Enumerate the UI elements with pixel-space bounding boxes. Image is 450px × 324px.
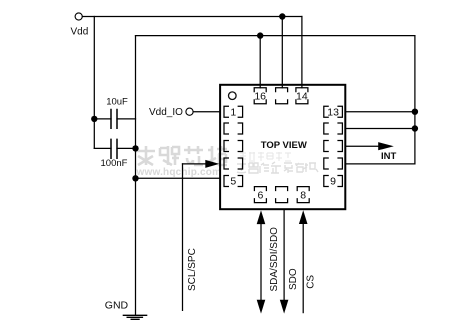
pin 2 xyxy=(224,123,243,134)
terminal Vdd xyxy=(75,13,82,20)
capacitor C1 10uF xyxy=(94,118,135,120)
pin 1 index circle xyxy=(229,92,237,100)
svg-text:10uF: 10uF xyxy=(106,96,128,107)
wire drop to pin 15 xyxy=(281,17,283,88)
pin 15 xyxy=(276,88,288,104)
svg-text:5: 5 xyxy=(230,176,236,188)
svg-text:SDA/SDI/SDO: SDA/SDI/SDO xyxy=(269,227,280,292)
svg-text:100nF: 100nF xyxy=(101,158,128,169)
junction dot pin5 branch xyxy=(132,175,138,181)
pin 4 xyxy=(224,158,243,169)
wire main vertical to GND xyxy=(135,36,137,315)
svg-text:Vdd_IO: Vdd_IO xyxy=(149,107,183,118)
svg-text:13: 13 xyxy=(327,106,339,118)
wire SCL/SPC horizontal xyxy=(183,163,207,165)
junction dot right rail upper xyxy=(412,109,418,115)
pin 8 xyxy=(297,187,309,203)
arrowhead CS up xyxy=(299,210,308,224)
wire SCL/SPC vertical xyxy=(182,164,184,311)
junction dot 100nF right xyxy=(132,145,138,151)
svg-text:CS: CS xyxy=(305,275,316,289)
pin 14 xyxy=(296,88,308,104)
wire to pin 5 xyxy=(136,177,220,179)
wire pin10 to right rail xyxy=(345,163,415,165)
svg-text:GND: GND xyxy=(105,299,129,311)
wire drop to pin 16 xyxy=(259,36,261,88)
wire Vdd_IO rail xyxy=(136,35,415,37)
arrowhead SDO down xyxy=(280,300,289,314)
arrowhead SDA up xyxy=(257,210,266,224)
svg-text:SDO: SDO xyxy=(288,268,299,290)
wire pin12 to right rail xyxy=(345,128,415,130)
svg-text:8: 8 xyxy=(300,189,306,201)
arrowhead SDA down xyxy=(257,300,266,314)
wire SDO xyxy=(283,209,285,301)
svg-text:Vdd: Vdd xyxy=(71,27,89,38)
svg-text:1: 1 xyxy=(230,106,236,118)
pin 10 xyxy=(324,158,343,169)
junction dot pin15 drop xyxy=(279,13,285,19)
pin 7 xyxy=(276,187,288,203)
svg-text:14: 14 xyxy=(296,91,308,103)
pin 12 xyxy=(324,123,343,134)
ground xyxy=(123,315,146,319)
wire Vdd top rail xyxy=(82,16,302,18)
wire right rail vertical xyxy=(414,36,416,164)
capacitor C2 100nF xyxy=(94,147,135,149)
wire left branch Vdd down xyxy=(93,17,95,149)
junction dot pin16 drop xyxy=(257,32,263,38)
wire CS xyxy=(302,217,304,313)
pin 11 xyxy=(324,141,343,152)
arrowhead INT xyxy=(378,142,394,150)
pin 5 xyxy=(224,176,243,187)
wire SDA/SDI/SDO xyxy=(260,217,262,301)
op-amp U1 chip body xyxy=(220,85,345,209)
pin 13 xyxy=(324,106,343,117)
arrowhead into pin 4 xyxy=(205,160,219,168)
svg-text:16: 16 xyxy=(254,91,266,103)
pin 16 xyxy=(254,88,266,104)
junction dot 10uF left xyxy=(91,116,97,122)
wire Vdd_IO to pin 1 xyxy=(193,111,219,113)
wire INT xyxy=(345,145,379,147)
pin 3 xyxy=(224,141,243,152)
svg-text:9: 9 xyxy=(330,176,336,188)
svg-text:TOP VIEW: TOP VIEW xyxy=(261,140,307,151)
pin 9 xyxy=(324,176,343,187)
svg-text:INT: INT xyxy=(381,151,397,162)
svg-text:6: 6 xyxy=(257,189,263,201)
svg-text:www.hqchip.com: www.hqchip.com xyxy=(136,167,222,178)
junction dot right rail lower xyxy=(412,125,418,131)
wire pin13 to right rail xyxy=(345,111,415,113)
wire drop to pin 14 xyxy=(301,17,303,88)
terminal Vdd_IO xyxy=(186,108,193,115)
pin 1 xyxy=(224,106,243,117)
watermark xyxy=(136,146,319,178)
pin 6 xyxy=(254,187,266,203)
svg-text:SCL/SPC: SCL/SPC xyxy=(187,248,198,291)
